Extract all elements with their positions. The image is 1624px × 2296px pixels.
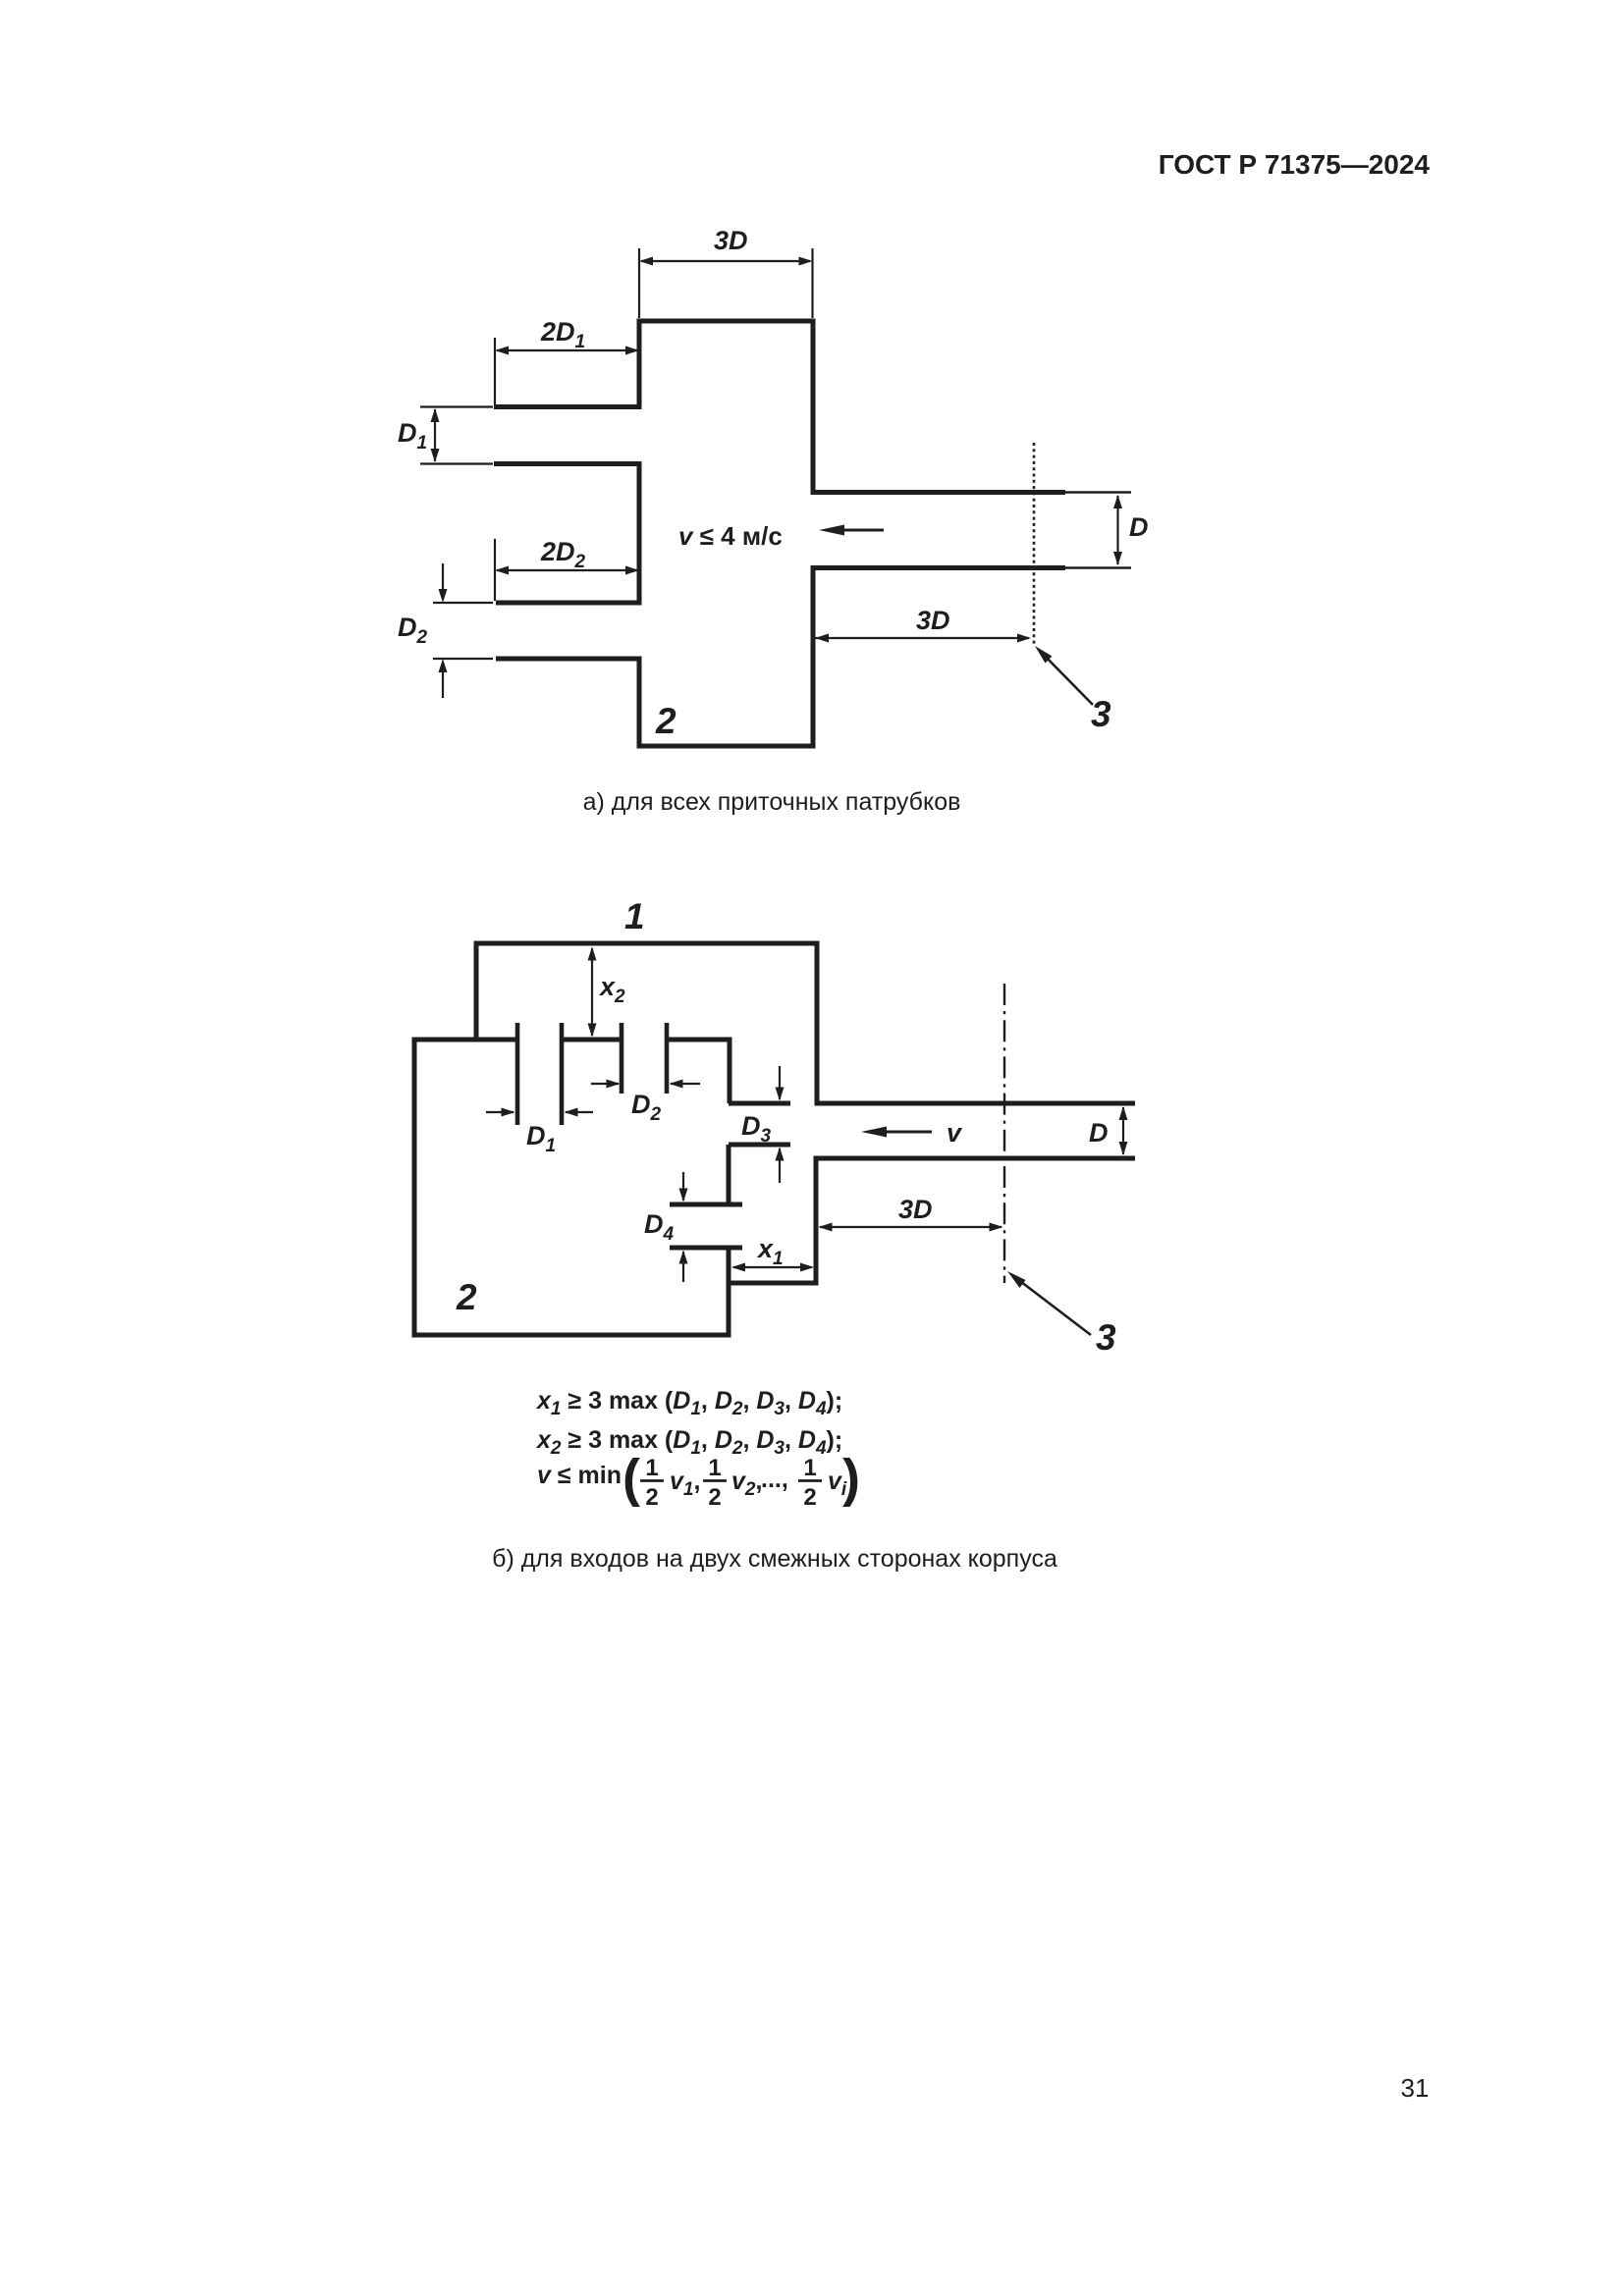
centre dash-dot line (node 3) <box>1003 984 1005 1283</box>
dimension 2D1 <box>495 338 639 404</box>
svg-text:б) для входов на двух смежных: б) для входов на двух смежных сторонах к… <box>492 1545 1057 1573</box>
dimension x1 <box>731 1263 814 1272</box>
svg-text:1: 1 <box>708 1455 721 1481</box>
svg-text:v ≤ 4 м/с: v ≤ 4 м/с <box>678 521 783 551</box>
dimension D1 <box>420 407 493 464</box>
dimension D3 (slot) <box>776 1066 785 1183</box>
diagram B texts <box>456 896 1116 1358</box>
svg-text:1: 1 <box>803 1455 816 1481</box>
dimension D (right duct) <box>1113 495 1122 565</box>
slot D3 upper stub <box>729 1101 790 1106</box>
pointer to node 3 <box>1007 1271 1091 1335</box>
formula v <= min <box>537 1449 860 1511</box>
lower-left branch bottom wall <box>496 657 642 662</box>
dimension 3D (top) <box>639 248 813 318</box>
svg-text:1: 1 <box>624 896 645 936</box>
dimension 3D <box>819 1223 1003 1232</box>
dimension D4 (slot) <box>679 1172 688 1282</box>
svg-text:3D: 3D <box>916 606 950 635</box>
chamber right wall lower <box>811 565 816 749</box>
svg-text:2: 2 <box>655 701 677 741</box>
right duct top wall thin extension <box>1065 491 1131 494</box>
plenum box outline <box>412 941 1136 1338</box>
chamber bottom wall <box>412 1333 731 1338</box>
dimension D2 <box>433 563 493 698</box>
wall between chamber top and D3 <box>728 1042 732 1104</box>
svg-text:): ) <box>842 1449 860 1508</box>
slot wall stub x=679 <box>665 1023 670 1094</box>
slot wall stub x=527 <box>515 1023 520 1125</box>
outlet duct top wall <box>815 1101 1136 1106</box>
svg-text:3: 3 <box>1091 694 1111 734</box>
page number <box>1401 2073 1430 2103</box>
dimension x2 <box>588 947 597 1038</box>
slot wall stub x=633 <box>620 1023 624 1094</box>
svg-text:...,: ..., <box>761 1466 788 1493</box>
right duct top wall <box>811 490 1066 495</box>
duct chamber outline <box>494 319 1131 749</box>
dimension D2 (slot) <box>591 1080 700 1089</box>
right duct bottom wall <box>811 565 1066 570</box>
chamber top wall segment 3 <box>667 1038 732 1042</box>
chamber top wall segment 2 <box>562 1038 622 1042</box>
svg-text:v: v <box>947 1118 963 1148</box>
caption b <box>492 1545 1057 1573</box>
chamber left wall lower segment <box>637 657 642 749</box>
inlet right wall <box>814 1156 819 1286</box>
svg-text:2: 2 <box>708 1484 721 1511</box>
wall between D4 and D3 <box>727 1145 731 1204</box>
svg-text:D: D <box>1129 512 1149 542</box>
chamber left wall top segment <box>637 319 642 410</box>
chamber right wall lower <box>727 1248 731 1338</box>
dimension D (outlet duct) <box>1119 1106 1128 1155</box>
lower-left branch top wall <box>496 601 642 606</box>
pointer to node 3 <box>1035 646 1093 705</box>
slot D4 lower stub <box>670 1246 742 1251</box>
svg-text:ГОСТ Р 71375—2024: ГОСТ Р 71375—2024 <box>1159 149 1431 180</box>
slot wall stub x=572 <box>560 1023 565 1125</box>
chamber right wall upper <box>811 319 816 496</box>
right duct bottom wall thin extension <box>1065 566 1131 569</box>
upper-left branch top wall <box>494 404 642 409</box>
flow arrow v <box>861 1127 932 1138</box>
section dotted line (node 3) <box>1033 443 1036 644</box>
svg-text:2: 2 <box>803 1484 816 1511</box>
chamber top wall segment 1 <box>412 1038 518 1042</box>
svg-text:а) для всех приточных патрубко: а) для всех приточных патрубков <box>583 788 961 816</box>
chamber top wall <box>637 319 816 324</box>
svg-text:1: 1 <box>645 1455 658 1481</box>
svg-text:3: 3 <box>1096 1317 1116 1358</box>
svg-text:(: ( <box>623 1449 640 1508</box>
header GOST R 71375-2024 <box>1159 149 1431 180</box>
caption a <box>583 788 961 816</box>
formulas <box>535 1387 860 1511</box>
diagram A texts <box>398 226 1149 741</box>
roof left wall <box>474 941 479 1041</box>
chamber left wall <box>412 1038 417 1338</box>
slot D3 lower stub <box>729 1143 790 1148</box>
slot D4 upper stub <box>670 1202 742 1207</box>
chamber bottom wall <box>637 744 816 749</box>
roof top wall (node 1) <box>474 941 820 946</box>
svg-text:31: 31 <box>1401 2073 1430 2103</box>
dimension 2D2 <box>495 539 639 601</box>
outlet duct bottom wall <box>814 1156 1136 1161</box>
inlet step bottom wall <box>729 1281 819 1286</box>
flow arrow v <box>819 525 884 536</box>
svg-text:v ≤ min: v ≤ min <box>537 1462 622 1489</box>
roof right wall <box>815 941 820 1106</box>
svg-text:D: D <box>1089 1118 1109 1148</box>
chamber left wall middle segment <box>637 461 642 606</box>
svg-text:3D: 3D <box>714 226 748 255</box>
dimension 3D (bottom right) <box>815 634 1031 643</box>
dimension D1 (slot) <box>486 1108 593 1117</box>
svg-text:3D: 3D <box>898 1195 933 1224</box>
svg-text:2: 2 <box>645 1484 658 1511</box>
upper-left branch bottom wall <box>494 461 642 466</box>
svg-text:2: 2 <box>456 1277 477 1317</box>
